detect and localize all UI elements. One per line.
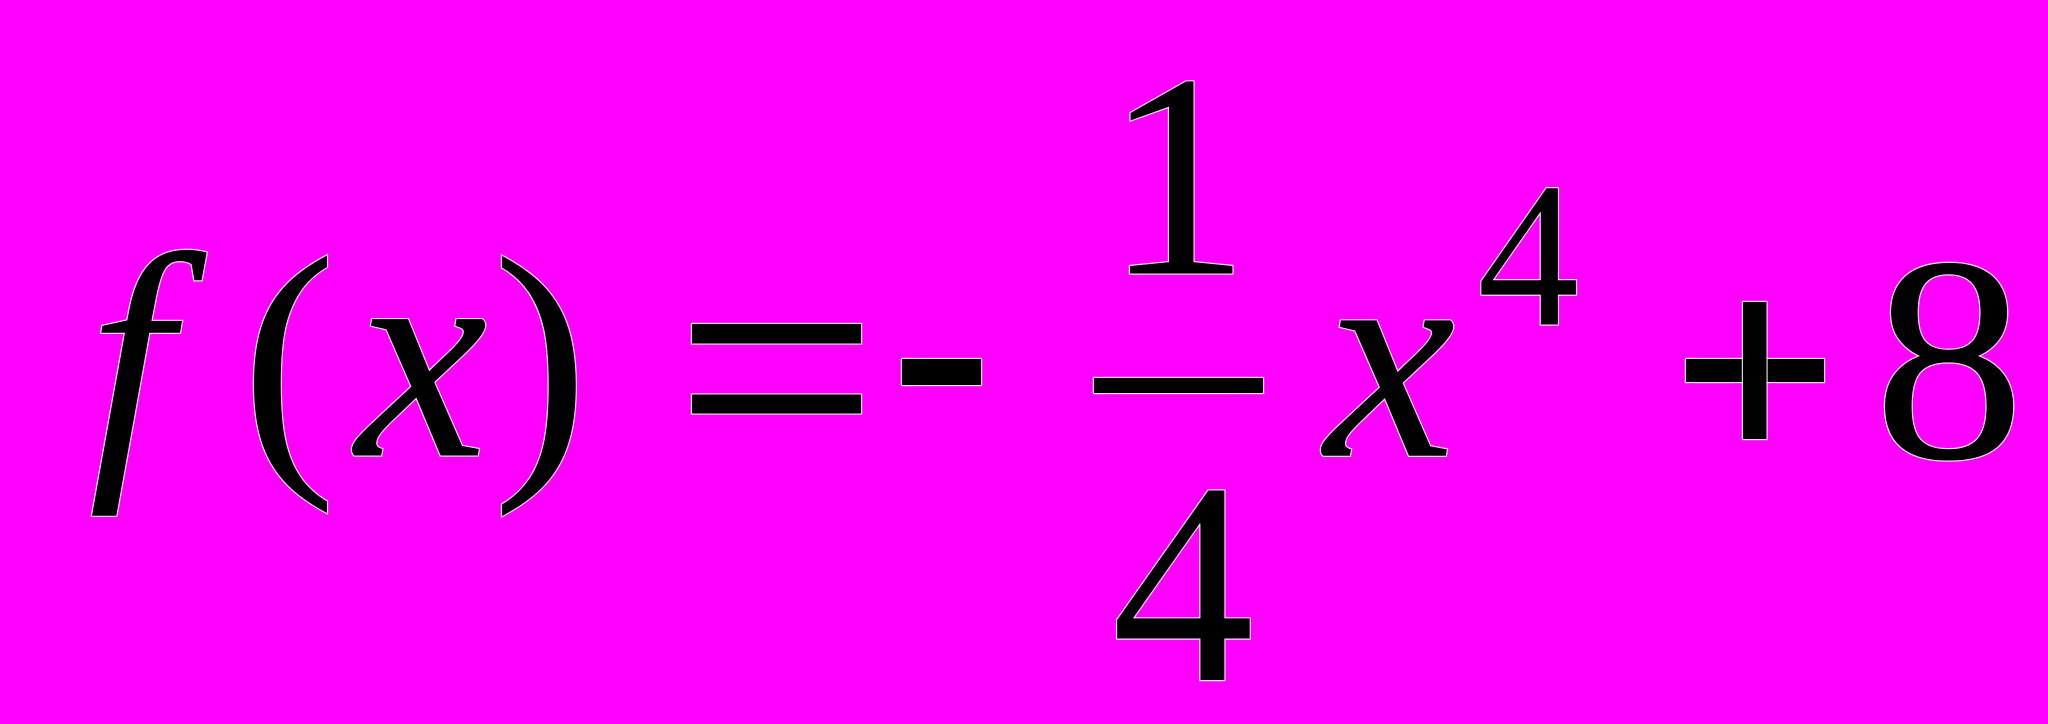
svg-text:(: ( xyxy=(242,201,337,515)
= top bar xyxy=(692,324,861,344)
svg-text:1: 1 xyxy=(1104,15,1250,337)
plus horizontal bar xyxy=(1686,359,1824,382)
minus xyxy=(902,359,981,385)
svg-text:8: 8 xyxy=(1874,198,2025,522)
svg-text:): ) xyxy=(493,200,589,518)
svg-text:4: 4 xyxy=(1112,424,1255,724)
= bottom bar xyxy=(692,395,861,414)
fraction bar xyxy=(1094,378,1263,393)
svg-text:4: 4 xyxy=(1477,141,1579,370)
svg-text:x: x xyxy=(1320,193,1456,520)
plus vertical bar xyxy=(1743,302,1767,439)
svg-text:x: x xyxy=(351,192,487,521)
